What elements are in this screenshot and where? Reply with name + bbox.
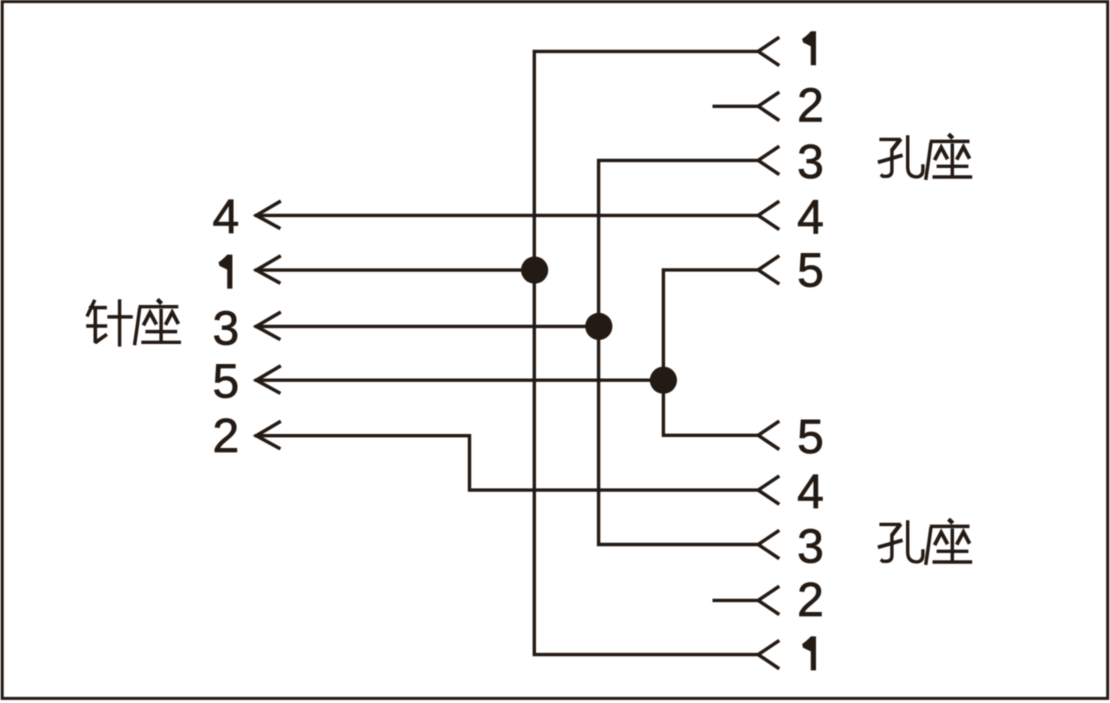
svg-text:4: 4 xyxy=(797,466,824,519)
svg-text:4: 4 xyxy=(797,191,824,244)
svg-text:5: 5 xyxy=(212,355,239,408)
svg-text:2: 2 xyxy=(212,410,239,463)
svg-text:3: 3 xyxy=(212,302,239,355)
svg-text:5: 5 xyxy=(797,411,824,464)
svg-text:2: 2 xyxy=(797,574,824,627)
svg-text:2: 2 xyxy=(797,79,824,132)
svg-text:5: 5 xyxy=(797,244,824,297)
svg-text:3: 3 xyxy=(797,521,824,574)
svg-text:4: 4 xyxy=(212,191,239,244)
svg-text:3: 3 xyxy=(797,136,824,189)
